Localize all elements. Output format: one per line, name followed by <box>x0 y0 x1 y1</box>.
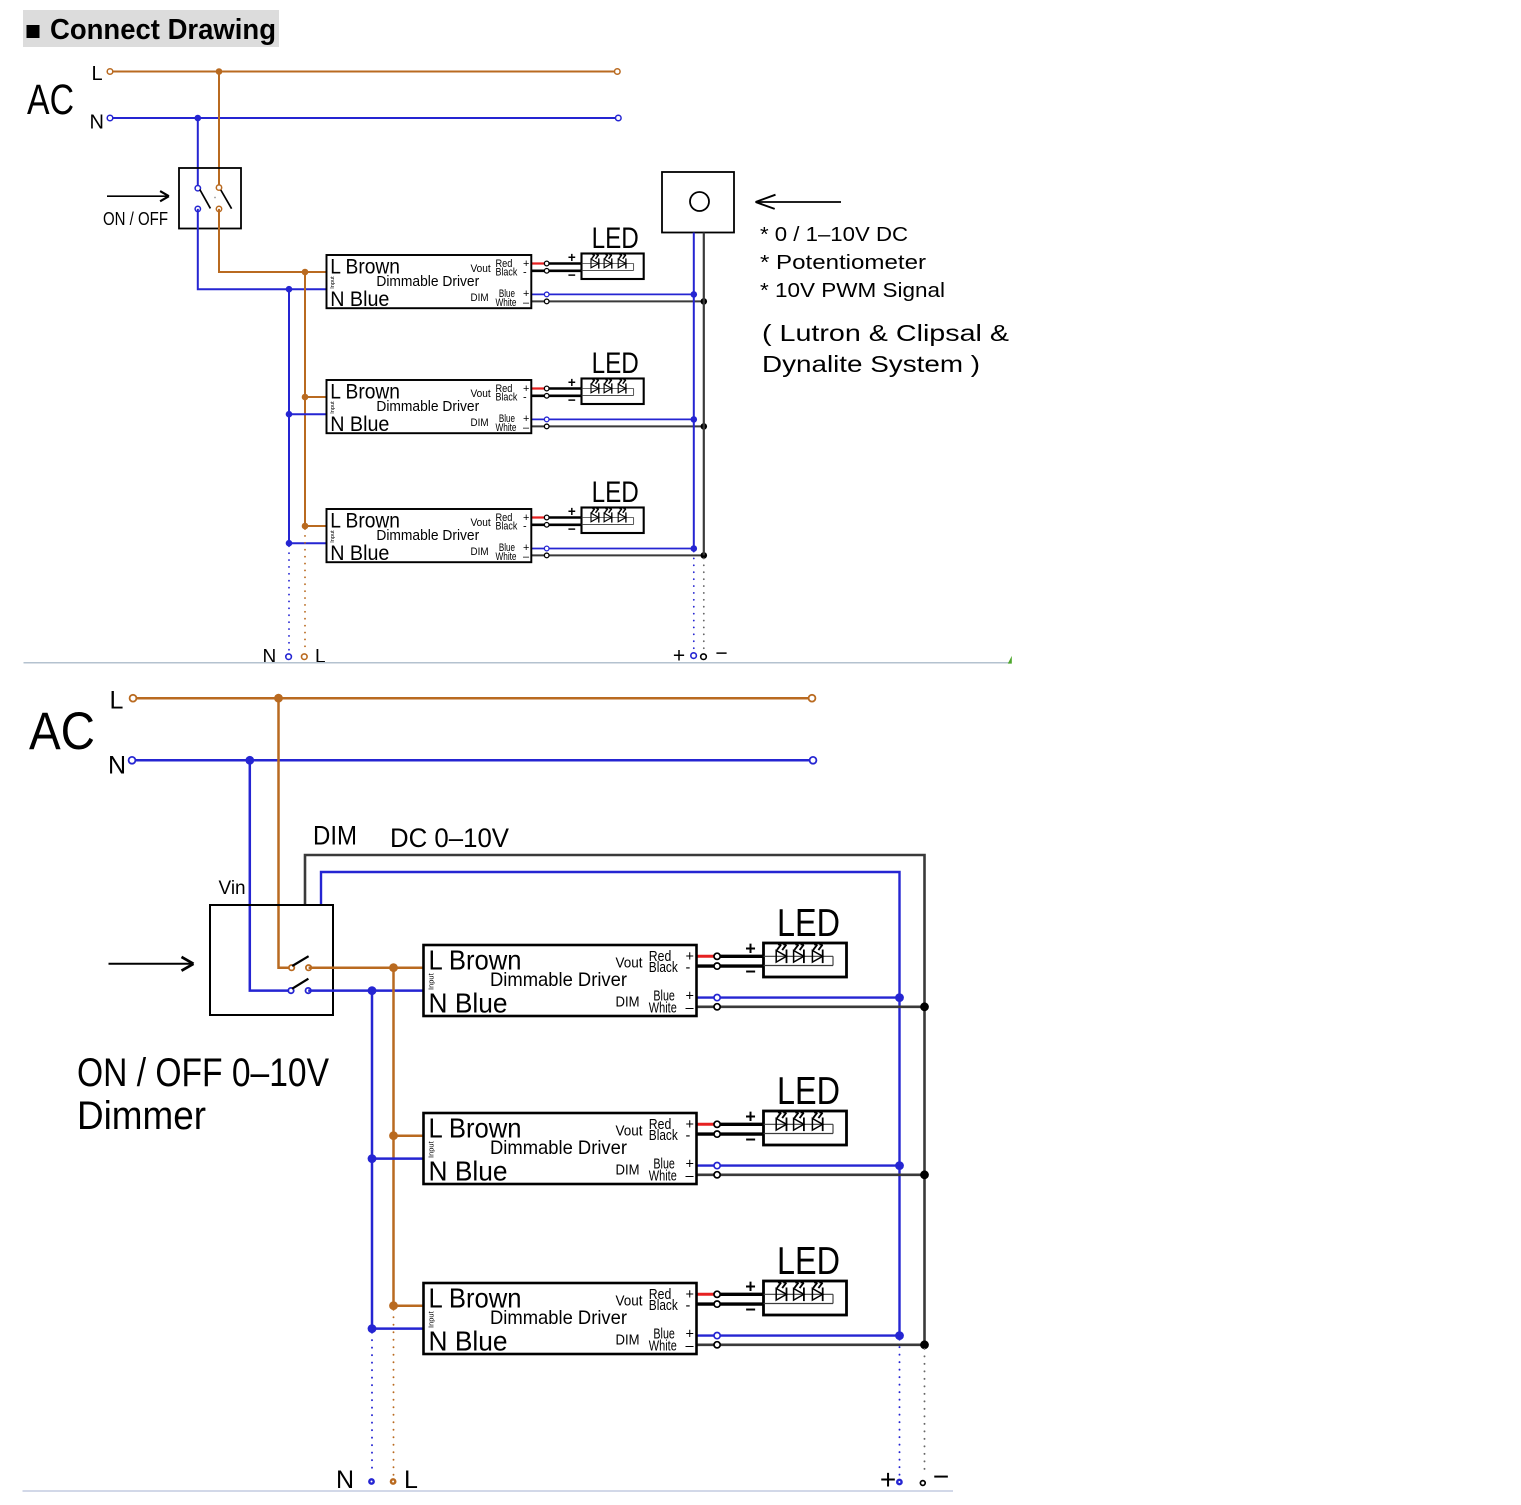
junction N/dimmer <box>245 756 254 765</box>
wire DIM Blue + (driver 5) <box>697 1164 900 1166</box>
junction L/switch <box>216 68 223 75</box>
wire DIM Blue + (driver 6) <box>697 1334 900 1336</box>
switch SW1 pole contacts <box>195 186 200 191</box>
svg-text:-: - <box>523 266 527 278</box>
svg-text:L: L <box>110 687 124 715</box>
LED module LED1 box <box>582 254 644 280</box>
svg-text:−: − <box>745 1130 756 1150</box>
svg-text:White: White <box>649 1339 677 1355</box>
wire DIM White - (driver 2) <box>531 425 704 427</box>
svg-text:LED: LED <box>777 1240 840 1283</box>
node L feed driver 5 <box>389 1131 398 1140</box>
svg-text:White: White <box>649 1169 677 1185</box>
potentiometer RP1 box <box>662 172 734 233</box>
wire L drop to dimmer <box>279 698 292 968</box>
junction DIM+ driver 1 <box>691 291 698 298</box>
driver U5 box <box>424 1113 697 1184</box>
node N feed driver 4 <box>368 986 377 995</box>
svg-text:-: - <box>686 960 691 976</box>
junction DIM- driver 4 <box>920 1002 929 1011</box>
wire Vout Red + (driver 6) <box>697 1293 718 1296</box>
terminal White (driver 1) <box>544 299 549 304</box>
wire L (AC line, orange, bottom) <box>133 697 812 700</box>
terminal Blue (driver 1) <box>544 292 549 297</box>
wire Vout Black - (driver 3) <box>531 524 581 527</box>
svg-text:LED: LED <box>777 902 840 945</box>
svg-text:Vout: Vout <box>471 263 492 275</box>
svg-text:N: N <box>336 1466 354 1494</box>
dotted N tail bottom (blue) <box>371 1333 373 1475</box>
terminal Blue (driver 2) <box>544 417 549 422</box>
svg-text:DIM: DIM <box>616 1161 640 1178</box>
LED diode D11 <box>591 259 599 268</box>
wire Vout Red + (driver 4) <box>697 955 718 958</box>
switch SW1 center mark <box>214 197 216 199</box>
wire L drop to switch <box>218 72 220 188</box>
svg-text:Dimmable Driver: Dimmable Driver <box>376 399 479 415</box>
svg-text:White: White <box>649 1001 677 1017</box>
node N feed driver 2 <box>286 411 293 418</box>
wire DIM White - (driver 1) <box>531 300 704 302</box>
svg-text:L: L <box>404 1466 418 1494</box>
dotted N tail (blue) <box>288 546 290 650</box>
svg-text:ON / OFF 0–10V: ON / OFF 0–10V <box>77 1051 329 1095</box>
svg-text:N Blue: N Blue <box>429 1326 508 1357</box>
LED6 internal chain wire <box>764 1293 834 1295</box>
wire switched L to driver bus (bottom) <box>309 966 424 969</box>
svg-text:Vout: Vout <box>471 517 492 529</box>
LED diode D13 <box>618 259 626 268</box>
svg-text:+: + <box>745 1107 756 1127</box>
LED diode D43 <box>812 951 822 963</box>
driver U4 box <box>424 945 697 1016</box>
svg-text:Vout: Vout <box>616 1293 644 1310</box>
terminal Black (driver 3) <box>544 522 549 527</box>
terminal L bottom <box>302 654 308 660</box>
svg-text:-: - <box>523 391 527 403</box>
wire switched N to driver bus <box>198 209 327 289</box>
svg-text:−: − <box>568 392 576 407</box>
svg-text:N: N <box>90 112 104 134</box>
svg-text:DIM: DIM <box>471 292 489 304</box>
svg-text:Vout: Vout <box>616 1123 644 1140</box>
svg-text:−: − <box>568 267 576 282</box>
junction DIM- driver 3 <box>701 552 708 559</box>
blue N distribution vertical <box>288 289 290 543</box>
svg-text:–: – <box>523 422 530 434</box>
dotted DIM+ tail (blue) <box>693 552 695 651</box>
svg-text:L: L <box>92 63 103 85</box>
LED diode D31 <box>591 513 599 522</box>
LED4 internal chain wire <box>764 955 834 957</box>
terminal Blue (driver 4) <box>714 995 720 1001</box>
wire N (AC neutral, blue) <box>110 117 618 119</box>
svg-text:+: + <box>568 504 576 519</box>
svg-text:+: + <box>745 1277 756 1297</box>
LED diode D33 <box>618 513 626 522</box>
terminal Red (driver 5) <box>714 1121 720 1127</box>
junction DIM+ driver 3 <box>691 545 698 552</box>
LED diode D41 <box>776 951 786 963</box>
LED module LED5 box <box>764 1111 847 1145</box>
terminal N bottom (diagram 2) <box>369 1479 373 1483</box>
wire N drop to switch <box>197 118 199 188</box>
junction N/switch <box>195 115 202 122</box>
svg-text:+: + <box>568 250 576 265</box>
svg-text:-: - <box>523 520 527 532</box>
wire L (AC line, orange) <box>110 71 617 73</box>
node N feed driver 3 <box>286 540 293 547</box>
LED module LED3 box <box>582 508 644 534</box>
blue N distribution vertical (bottom) <box>371 991 374 1329</box>
terminal L bottom (diagram 2) <box>391 1479 395 1483</box>
junction DIM- driver 1 <box>701 298 708 305</box>
switch SW1 box (ON/OFF) <box>179 168 241 229</box>
svg-text:N Blue: N Blue <box>429 1156 508 1187</box>
terminal White (driver 3) <box>544 553 549 558</box>
svg-text:–: – <box>686 1001 695 1017</box>
wire DIM- bus (black) <box>305 855 925 1345</box>
node N feed driver 6 <box>368 1324 377 1333</box>
wire DIM Blue + (driver 1) <box>531 293 694 295</box>
node N feed driver 1 <box>286 286 293 293</box>
svg-text:Dimmable Driver: Dimmable Driver <box>376 528 479 544</box>
wire Vout Black - (driver 1) <box>531 270 581 273</box>
terminal Red (driver 3) <box>544 515 549 520</box>
svg-text:DC 0–10V: DC 0–10V <box>390 823 509 853</box>
svg-text:Dynalite System ): Dynalite System ) <box>762 351 980 377</box>
junction DIM- driver 6 <box>920 1340 929 1349</box>
svg-text:N Blue: N Blue <box>330 413 389 436</box>
LED module LED4 box <box>764 943 847 977</box>
dotted L tail (orange) <box>304 529 306 650</box>
LED diode D62 <box>794 1289 804 1301</box>
wire DIM White - (driver 3) <box>531 554 704 556</box>
header highlight bar <box>23 10 279 47</box>
svg-text:−: − <box>715 642 727 665</box>
orange L distribution vertical (bottom) <box>392 968 395 1306</box>
terminal White (driver 5) <box>714 1172 720 1178</box>
LED1 internal chain wire <box>582 263 634 265</box>
node L feed driver 6 <box>389 1301 398 1310</box>
svg-text:Black: Black <box>496 520 518 532</box>
svg-text:White: White <box>496 297 517 309</box>
driver U6 box <box>424 1283 697 1354</box>
LED module LED2 box <box>582 379 644 405</box>
wire Vout Black - (driver 2) <box>531 395 581 398</box>
driver U1 box <box>327 255 532 308</box>
svg-text:LED: LED <box>592 477 639 509</box>
junction DIM- driver 2 <box>701 423 708 430</box>
junction DIM+ driver 4 <box>895 993 904 1002</box>
arrow to RP1 <box>756 201 842 203</box>
terminal Black (driver 4) <box>714 963 720 969</box>
LED diode D42 <box>794 951 804 963</box>
bottom separator line <box>23 1490 954 1492</box>
LED5 internal chain wire <box>764 1123 834 1125</box>
svg-text:–: – <box>686 1169 695 1185</box>
svg-text:-: - <box>686 1128 691 1144</box>
terminal Black (driver 2) <box>544 393 549 398</box>
wire N stub driver 6 <box>372 1327 424 1330</box>
svg-text:-: - <box>686 1298 691 1314</box>
svg-text:–: – <box>523 551 530 563</box>
arrow to SW1 <box>107 195 168 197</box>
LED diode D21 <box>591 384 599 393</box>
svg-text:DIM: DIM <box>616 1331 640 1348</box>
svg-text:Dimmable Driver: Dimmable Driver <box>490 969 627 991</box>
wire switched L to driver bus <box>219 209 327 272</box>
dimmer SW2 L blade <box>292 956 308 966</box>
svg-text:Vout: Vout <box>616 955 644 972</box>
dotted L tail bottom (orange) <box>393 1310 395 1475</box>
wire DIM White - (driver 4) <box>697 1005 925 1008</box>
svg-text:AC: AC <box>29 702 95 761</box>
LED diode D51 <box>776 1119 786 1131</box>
node N feed driver 5 <box>368 1154 377 1163</box>
node L feed driver 4 <box>389 963 398 972</box>
LED diode D12 <box>604 259 612 268</box>
dotted DIM- tail (black) <box>703 558 705 650</box>
svg-text:−: − <box>933 1461 949 1492</box>
junction DIM+ driver 5 <box>895 1161 904 1170</box>
LED diode D23 <box>618 384 626 393</box>
svg-text:DIM: DIM <box>313 821 357 851</box>
svg-text:Black: Black <box>496 266 518 278</box>
wire DIM White - (driver 5) <box>697 1174 925 1177</box>
arrow to SW2 <box>109 963 193 965</box>
svg-text:N Blue: N Blue <box>429 988 508 1019</box>
svg-text:ON / OFF: ON / OFF <box>103 208 168 229</box>
terminal White (driver 4) <box>714 1004 720 1010</box>
svg-text:–: – <box>686 1339 695 1355</box>
svg-text:AC: AC <box>27 76 74 124</box>
svg-text:N Blue: N Blue <box>330 542 389 565</box>
svg-text:+: + <box>745 939 756 959</box>
wire Vout Red + (driver 1) <box>531 262 547 264</box>
dotted DIM+ tail bottom (blue) <box>899 1340 901 1475</box>
wire N (AC neutral, blue, bottom) <box>132 759 813 762</box>
svg-text:Black: Black <box>649 1128 679 1144</box>
driver U2 box <box>327 380 532 433</box>
LED3 internal chain wire <box>582 517 634 519</box>
svg-text:Dimmer: Dimmer <box>77 1094 206 1138</box>
terminal - bottom (diagram 2) <box>920 1481 925 1486</box>
wire Vout Black - (driver 6) <box>697 1302 764 1305</box>
LED diode D32 <box>604 513 612 522</box>
svg-text:DIM: DIM <box>616 993 640 1010</box>
svg-text:LED: LED <box>592 348 639 380</box>
svg-text:Black: Black <box>649 960 679 976</box>
junction DIM+ driver 6 <box>895 1331 904 1340</box>
header bullet square <box>27 25 40 38</box>
wire Vout Red + (driver 3) <box>531 516 547 518</box>
terminal Red (driver 2) <box>544 386 549 391</box>
svg-text:N: N <box>263 647 277 668</box>
node L feed driver 1 <box>302 269 309 276</box>
LED diode D53 <box>812 1119 822 1131</box>
svg-text:Black: Black <box>496 391 518 403</box>
orange L distribution vertical <box>304 272 306 526</box>
dimmer SW2 box <box>210 905 333 1015</box>
svg-text:LED: LED <box>777 1070 840 1113</box>
wire L stub driver 5 <box>394 1134 424 1137</box>
svg-text:N Blue: N Blue <box>330 288 389 311</box>
switch SW1 blade (N pole) <box>200 190 211 209</box>
svg-text:L: L <box>315 647 326 668</box>
wire L stub driver 3 <box>305 525 327 527</box>
node L feed driver 2 <box>302 394 309 401</box>
svg-text:Black: Black <box>649 1298 679 1314</box>
driver U3 box <box>327 509 532 562</box>
terminal - bottom <box>701 654 707 660</box>
terminal Black (driver 5) <box>714 1131 720 1137</box>
wire DIM Blue + (driver 4) <box>697 996 900 998</box>
wire L stub driver 2 <box>305 396 327 398</box>
LED module LED6 box <box>764 1281 847 1315</box>
svg-text:* 10V PWM Signal: * 10V PWM Signal <box>760 279 945 302</box>
wire DIM Blue + (driver 3) <box>531 548 694 550</box>
wire DIM White - (driver 6) <box>697 1344 925 1347</box>
terminal + bottom (diagram 2) <box>897 1480 901 1484</box>
svg-text:DIM: DIM <box>471 546 489 558</box>
terminal Black (driver 6) <box>714 1301 720 1307</box>
svg-text:−: − <box>568 521 576 536</box>
terminal Red (driver 1) <box>544 261 549 266</box>
svg-text:Dimmable Driver: Dimmable Driver <box>490 1137 627 1159</box>
terminal Blue (driver 3) <box>544 546 549 551</box>
wire DIM Blue + (driver 2) <box>531 418 694 420</box>
svg-text:Vout: Vout <box>471 388 492 400</box>
terminal Blue (driver 5) <box>714 1163 720 1169</box>
terminal Red (driver 6) <box>714 1291 720 1297</box>
wire N stub driver 3 <box>289 542 327 544</box>
svg-text:+: + <box>568 375 576 390</box>
wire Vout Red + (driver 5) <box>697 1123 718 1126</box>
svg-text:–: – <box>523 297 530 309</box>
dimmer SW2 L contacts <box>289 965 294 970</box>
green resize corner <box>1008 656 1012 664</box>
wire DIM+ bus (blue) <box>321 872 900 1336</box>
LED diode D52 <box>794 1119 804 1131</box>
switch SW1 blade (L pole) <box>221 190 232 209</box>
wire DIM+ vertical (blue) <box>693 233 695 549</box>
wire N drop to dimmer <box>250 760 291 990</box>
wire Vout Black - (driver 5) <box>697 1132 764 1135</box>
LED diode D61 <box>776 1289 786 1301</box>
svg-text:Dimmable Driver: Dimmable Driver <box>490 1307 627 1329</box>
wire N stub driver 5 <box>372 1157 424 1160</box>
junction L/dimmer <box>274 694 283 703</box>
dimmer SW2 N contacts <box>288 988 293 993</box>
junction DIM+ driver 2 <box>691 416 698 423</box>
wire switched N to driver bus (bottom) <box>308 989 423 992</box>
svg-text:LED: LED <box>592 223 639 255</box>
separator line between diagrams <box>24 662 1012 664</box>
potentiometer RP1 knob <box>690 192 709 211</box>
svg-text:White: White <box>496 422 517 434</box>
dimmer SW2 N blade <box>292 979 308 989</box>
svg-text:* Potentiometer: * Potentiometer <box>760 251 926 274</box>
terminal Red (driver 4) <box>714 953 720 959</box>
node L feed driver 3 <box>302 523 309 530</box>
terminal + bottom <box>691 653 697 659</box>
svg-text:−: − <box>745 1300 756 1320</box>
svg-text:−: − <box>745 962 756 982</box>
svg-text:N: N <box>108 752 126 780</box>
wire L stub driver 6 <box>394 1304 424 1307</box>
svg-text:Dimmable Driver: Dimmable Driver <box>376 274 479 290</box>
terminal N bottom <box>286 654 292 660</box>
svg-text:Connect Drawing: Connect Drawing <box>50 14 276 46</box>
terminal Black (driver 1) <box>544 268 549 273</box>
svg-text:* 0 / 1–10V DC: * 0 / 1–10V DC <box>760 223 908 246</box>
LED2 internal chain wire <box>582 388 634 390</box>
dotted DIM- tail bottom (black) <box>924 1349 926 1475</box>
LED diode D63 <box>812 1289 822 1301</box>
svg-text:Vin: Vin <box>219 878 246 899</box>
svg-text:+: + <box>673 645 685 668</box>
wire DIM- vertical (black) <box>703 233 705 556</box>
svg-text:( Lutron & Clipsal &: ( Lutron & Clipsal & <box>762 320 1009 346</box>
svg-text:White: White <box>496 551 517 563</box>
wire Vout Black - (driver 4) <box>697 964 764 967</box>
wire Vout Red + (driver 2) <box>531 387 547 389</box>
junction DIM- driver 5 <box>920 1170 929 1179</box>
wire N stub driver 2 <box>289 413 327 415</box>
LED diode D22 <box>604 384 612 393</box>
terminal Blue (driver 6) <box>714 1333 720 1339</box>
svg-text:DIM: DIM <box>471 417 489 429</box>
terminal White (driver 6) <box>714 1342 720 1348</box>
terminal White (driver 2) <box>544 424 549 429</box>
